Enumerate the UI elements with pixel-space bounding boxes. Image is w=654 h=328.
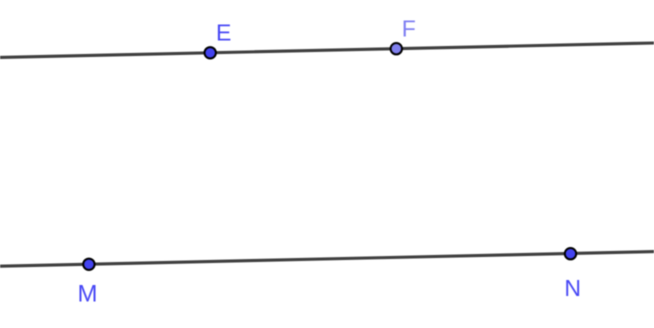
point E — [205, 47, 216, 58]
svg-text:M: M — [78, 280, 98, 307]
point F — [391, 43, 402, 54]
svg-text:E: E — [216, 20, 231, 46]
svg-text:N: N — [564, 275, 581, 301]
line EF (top line through E and F) — [0, 43, 654, 57]
point M — [83, 259, 94, 270]
line MN (bottom line through M and N) — [0, 252, 654, 267]
point N — [565, 248, 576, 259]
svg-text:F: F — [402, 16, 416, 42]
